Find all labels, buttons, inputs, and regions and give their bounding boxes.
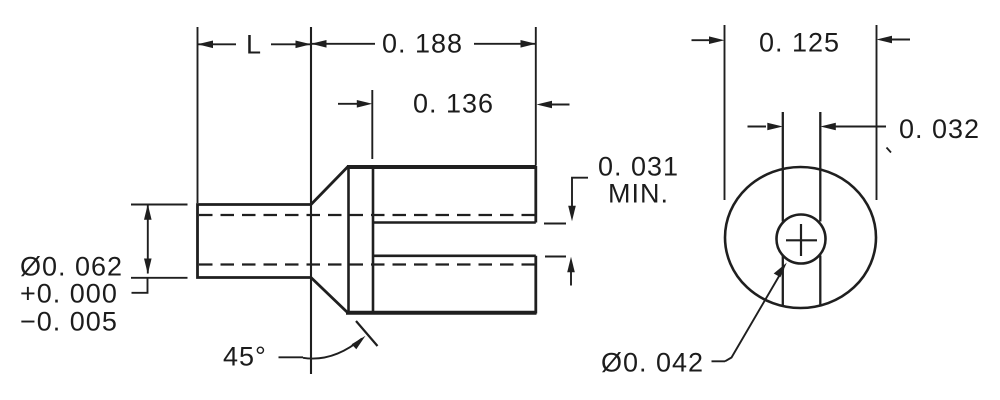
diameter dimension arrow line: [147, 205, 149, 274]
slot edge left upper segment: [782, 112, 784, 222]
extension line at pin right / chamfer plane: [310, 27, 312, 374]
dimension 0.136 arrowhead right: [537, 101, 553, 109]
svg-text:−0. 005: −0. 005: [20, 307, 118, 337]
slot top line: [373, 221, 536, 224]
svg-text:0. 188: 0. 188: [382, 29, 463, 59]
dimension 0.032 arrowhead left: [767, 123, 783, 131]
taper bottom edge: [311, 278, 348, 313]
dimension 0.032 left outside stem: [748, 126, 767, 128]
slot extension tick lower right: [545, 256, 566, 258]
diameter extension line top: [131, 204, 188, 206]
diameter dimension arrowhead down: [144, 259, 152, 275]
dimension 0.188 arrowhead left: [311, 40, 327, 48]
dimension 0.125 left outside stem: [692, 39, 711, 41]
diameter leader elbow: [132, 279, 148, 293]
dimension 0.125 arrowhead left: [709, 36, 725, 44]
body top edge: [347, 165, 537, 169]
svg-text:Ø0. 042: Ø0. 042: [601, 348, 704, 378]
diameter dimension arrowhead up: [144, 204, 152, 220]
slot dim arrowhead up: [567, 257, 575, 273]
dimension 0.125 right outside stem: [891, 39, 910, 41]
slot extension tick upper right: [544, 223, 566, 225]
extension line end view left: [724, 25, 726, 200]
svg-text:0. 031: 0. 031: [598, 152, 679, 182]
bore hidden line upper (dashed): [199, 214, 536, 216]
body bottom edge: [346, 311, 537, 315]
end view outer circle: [725, 167, 876, 308]
svg-text:Ø0. 062: Ø0. 062: [20, 252, 123, 282]
dimension 0.136 left outside arrow stem: [338, 103, 358, 105]
svg-text:0. 136: 0. 136: [413, 89, 494, 119]
dimension 0.125 arrowhead right: [877, 36, 893, 44]
body right edge upper segment: [534, 166, 537, 223]
stray scan mark: [887, 148, 892, 153]
svg-text:MIN.: MIN.: [608, 179, 669, 209]
end view bore circle: [777, 215, 826, 264]
slot edge right upper segment: [819, 112, 821, 222]
extension line at body right: [535, 27, 537, 165]
bore leader dash: [712, 360, 726, 362]
dimension 0.136 right outside arrow stem: [551, 104, 570, 106]
diameter extension line bottom: [131, 277, 188, 279]
dimension 0.188 arrowhead right: [521, 40, 537, 48]
bore crosshair vertical: [800, 224, 802, 256]
body right edge lower segment: [534, 256, 537, 314]
svg-text:0. 125: 0. 125: [759, 28, 840, 58]
dimension L arrowhead left: [198, 41, 214, 49]
slot dim lower stem: [570, 271, 572, 286]
45 degree leader line: [279, 356, 304, 358]
extension line for 0.136 left: [371, 90, 373, 159]
dimension 0.188 line right segment: [474, 43, 536, 45]
svg-text:45°: 45°: [223, 342, 267, 372]
bore crosshair horizontal: [786, 239, 817, 241]
45 degree arc: [303, 339, 362, 359]
taper top edge: [311, 167, 348, 205]
dimension L line left segment: [198, 43, 237, 45]
slot dim arrowhead down: [568, 206, 576, 222]
bore leader arrowhead: [774, 263, 787, 278]
pin (small cylinder) outline: [198, 205, 312, 278]
dimension 0.136 arrowhead left: [357, 100, 373, 108]
45 degree tick line: [356, 321, 378, 346]
bore hidden line lower (dashed): [199, 263, 536, 265]
extension line at pin left: [197, 27, 199, 203]
svg-text:L: L: [246, 30, 262, 60]
dimension 0.032 right outside stem: [835, 126, 886, 128]
svg-text:0. 032: 0. 032: [899, 114, 980, 144]
svg-text:+0. 000: +0. 000: [20, 279, 118, 309]
dimension 0.188 line left segment: [311, 43, 375, 45]
slot bottom line: [373, 255, 536, 258]
body vertical line V2 (collar junction): [372, 167, 375, 312]
dimension 0.032 arrowhead right: [820, 123, 836, 131]
slot edge right lower segment: [819, 256, 821, 305]
dimension L arrowhead right: [296, 41, 312, 49]
45 degree arrowhead: [352, 336, 366, 349]
slot dim upper bent leader: [572, 178, 588, 206]
bore leader line: [725, 269, 784, 362]
body vertical line V1 (taper-body junction): [347, 167, 350, 313]
extension line end view right: [876, 25, 878, 200]
slot edge left lower segment: [782, 256, 784, 306]
dimension L line right segment: [271, 43, 311, 45]
